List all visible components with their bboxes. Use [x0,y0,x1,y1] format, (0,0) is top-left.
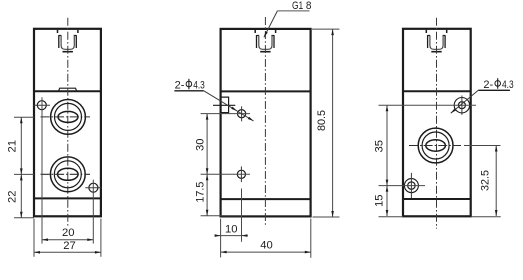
arrows 21/22 [20,117,23,123]
dim line 40 [221,251,311,253]
extension line x=100.9 bottom [100,219,102,257]
extension line bottom right [471,216,501,218]
hole D right view [408,182,415,189]
label G1/8 underline [277,10,309,12]
svg-text:15: 15 [373,195,385,208]
hole M2 middle view [237,170,245,178]
joint line right view [403,90,471,92]
joint line left view [34,90,101,92]
hole M2 crosshair v [240,166,242,182]
port P2 left view [50,157,85,192]
hole C right view [458,102,465,109]
extension line y=105.2 (dim 35) [379,104,477,106]
boss tab left view [58,88,76,91]
port P1 left view [51,100,86,135]
flange line right view [403,198,471,200]
svg-text:21: 21 [7,140,19,153]
svg-text:30: 30 [194,139,206,152]
label underline middle [174,90,203,92]
svg-text:27: 27 [63,240,75,252]
extension line y=174.3 [201,173,250,175]
extension x=220.6 bottom [220,219,222,258]
svg-text:2-: 2- [483,79,493,91]
body outline right view [403,29,471,217]
flange hole notch middle view [221,97,229,113]
flange line left view [34,197,101,199]
dim line 27 [34,251,101,253]
body outline left view [34,29,101,217]
svg-text:32.5: 32.5 [480,170,492,191]
centerline left view [67,18,69,226]
hole A crosshair v + extension for dim 20 [41,97,43,243]
svg-text:2-: 2- [175,80,185,92]
mounting hole A left view [37,101,46,110]
label underline right [478,89,510,91]
extension x=310.8 bottom [310,219,312,258]
svg-text:80.5: 80.5 [316,110,328,131]
extension 32.5 top [464,145,501,147]
extension 80.5 bottom [313,216,340,218]
connector recess right view [426,30,446,52]
port P1 centerline [41,116,91,118]
svg-text:17.5: 17.5 [194,182,206,203]
svg-text:40: 40 [260,240,273,252]
svg-text:35: 35 [373,140,385,153]
hole M1 middle view [238,110,246,118]
port P3 right view [418,128,453,163]
centerline middle view [264,17,266,227]
hole D crosshair v [410,173,412,198]
leader 2-d4.3 middle [204,91,254,121]
extension line y=117 [14,116,34,118]
hole C crosshair v [461,96,463,115]
mounting hole B left view [89,183,98,192]
hole B crosshair h [85,187,101,189]
extension line y=217.7 [14,217,34,219]
joint line middle view [221,90,311,92]
svg-text:8: 8 [306,0,312,12]
flange line middle view [221,198,311,200]
extension line y=185.6 (dim 15) [379,185,426,187]
connector recess left view [57,30,77,52]
extension line y=174.4 [14,173,34,175]
hole A crosshair h [34,104,50,106]
svg-text:20: 20 [62,227,75,239]
body outline middle view [221,29,311,217]
port P2 centerline [41,173,91,175]
svg-text:G1: G1 [292,0,303,12]
flange hole cross tick [213,104,235,106]
dim line 35/15 [386,105,388,216]
dim line 30/17.5 [206,114,208,216]
port P3 centerline [409,145,461,147]
extension 80.5 top [312,28,340,30]
extension line bottom left [379,216,404,218]
extension for dim 10 [241,189,243,242]
dim line 80.5 [332,29,334,217]
centerline right view [436,18,438,229]
leader 2-d4.3 right [451,90,479,113]
dim line 20 [42,239,93,241]
leader G1/8 [264,11,278,37]
svg-text:4.3: 4.3 [502,79,514,91]
svg-text:4.3: 4.3 [193,80,205,92]
extension line x=34 bottom [33,219,35,257]
hole B crosshair v + extension for dim 20 [92,180,94,244]
svg-text:22: 22 [7,191,19,204]
dim line 32.5 [495,146,497,217]
connector recess middle view [255,30,275,52]
dim line 10 [215,235,248,237]
hole M1 crosshair v [241,106,243,121]
svg-text:10: 10 [225,223,238,235]
extension line y=113.6 [201,113,250,115]
extension line y=215.8 [201,215,241,217]
dim line 21/22 [20,117,22,218]
